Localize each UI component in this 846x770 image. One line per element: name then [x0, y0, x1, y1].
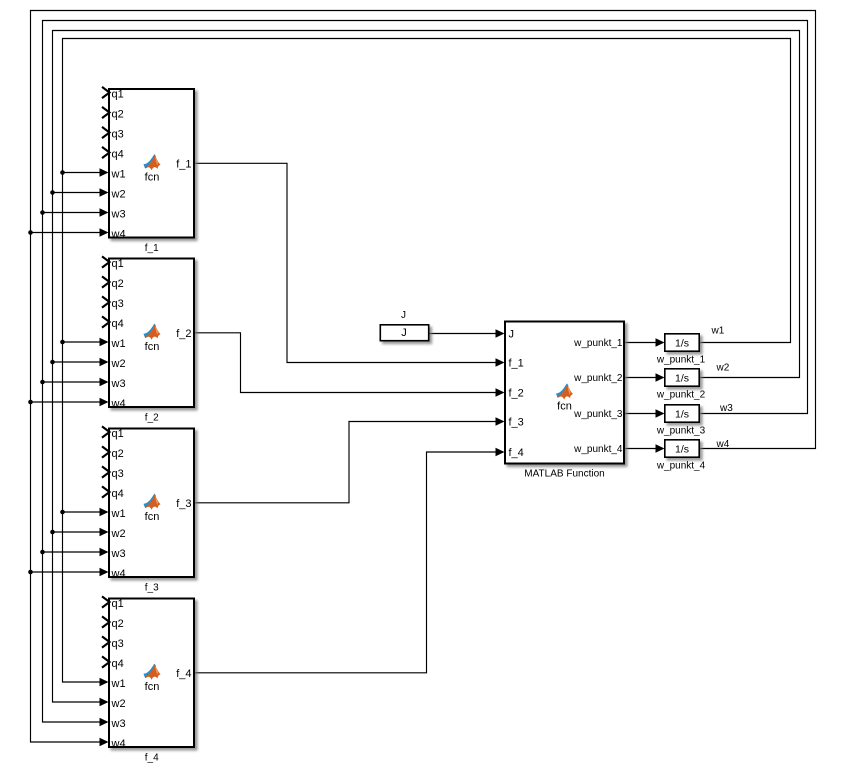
- svg-text:1/s: 1/s: [675, 337, 689, 349]
- svg-text:q1: q1: [112, 258, 124, 270]
- svg-text:q3: q3: [112, 638, 124, 650]
- svg-text:f_2: f_2: [509, 387, 524, 399]
- svg-text:w3: w3: [111, 548, 126, 560]
- svg-text:q2: q2: [112, 448, 124, 460]
- svg-text:w3: w3: [719, 403, 733, 414]
- svg-text:w3: w3: [111, 208, 126, 220]
- svg-text:w1: w1: [711, 326, 725, 337]
- svg-text:1/s: 1/s: [675, 443, 689, 455]
- svg-text:w2: w2: [111, 188, 126, 200]
- svg-text:q3: q3: [112, 468, 124, 480]
- svg-text:w4: w4: [111, 398, 126, 410]
- svg-text:q3: q3: [112, 128, 124, 140]
- svg-text:q1: q1: [112, 598, 124, 610]
- svg-text:w_punkt_1: w_punkt_1: [573, 338, 623, 349]
- svg-text:q4: q4: [112, 658, 124, 670]
- svg-text:f_4: f_4: [145, 753, 159, 764]
- svg-text:f_4: f_4: [509, 447, 524, 459]
- svg-text:w_punkt_3: w_punkt_3: [656, 426, 706, 437]
- svg-text:q1: q1: [112, 428, 124, 440]
- svg-text:f_3: f_3: [176, 498, 191, 510]
- svg-text:f_3: f_3: [509, 416, 524, 428]
- svg-text:f_2: f_2: [176, 328, 191, 340]
- svg-text:f_1: f_1: [145, 243, 159, 254]
- svg-text:w3: w3: [111, 378, 126, 390]
- svg-text:J: J: [401, 327, 407, 339]
- svg-text:w_punkt_4: w_punkt_4: [573, 444, 623, 455]
- svg-text:w_punkt_4: w_punkt_4: [656, 461, 706, 472]
- svg-text:q4: q4: [112, 488, 124, 500]
- svg-text:f_1: f_1: [176, 158, 191, 170]
- svg-text:w_punkt_1: w_punkt_1: [656, 355, 706, 366]
- svg-text:w1: w1: [111, 508, 126, 520]
- svg-text:1/s: 1/s: [675, 372, 689, 384]
- svg-text:q4: q4: [112, 318, 124, 330]
- svg-text:fcn: fcn: [145, 171, 160, 183]
- svg-text:fcn: fcn: [145, 511, 160, 523]
- svg-text:MATLAB Function: MATLAB Function: [524, 469, 604, 480]
- svg-text:w2: w2: [716, 363, 730, 374]
- svg-text:w4: w4: [111, 228, 126, 240]
- svg-text:J: J: [401, 310, 406, 321]
- svg-text:fcn: fcn: [145, 681, 160, 693]
- svg-text:w4: w4: [716, 439, 730, 450]
- svg-text:w4: w4: [111, 738, 126, 750]
- svg-text:q2: q2: [112, 618, 124, 630]
- svg-text:fcn: fcn: [557, 401, 572, 413]
- svg-text:w2: w2: [111, 698, 126, 710]
- svg-text:1/s: 1/s: [675, 408, 689, 420]
- svg-text:w4: w4: [111, 568, 126, 580]
- svg-text:w2: w2: [111, 528, 126, 540]
- svg-text:f_4: f_4: [176, 668, 191, 680]
- svg-text:w_punkt_3: w_punkt_3: [573, 409, 623, 420]
- svg-text:q2: q2: [112, 278, 124, 290]
- svg-text:q3: q3: [112, 298, 124, 310]
- svg-text:f_2: f_2: [145, 413, 159, 424]
- svg-text:w1: w1: [111, 338, 126, 350]
- svg-text:q2: q2: [112, 108, 124, 120]
- svg-text:w2: w2: [111, 358, 126, 370]
- svg-text:J: J: [509, 328, 515, 340]
- svg-text:w3: w3: [111, 718, 126, 730]
- svg-text:w_punkt_2: w_punkt_2: [656, 390, 706, 401]
- svg-text:w_punkt_2: w_punkt_2: [573, 373, 623, 384]
- svg-text:q1: q1: [112, 88, 124, 100]
- svg-text:w1: w1: [111, 678, 126, 690]
- svg-text:f_1: f_1: [509, 357, 524, 369]
- svg-text:fcn: fcn: [145, 341, 160, 353]
- svg-text:f_3: f_3: [145, 583, 159, 594]
- svg-text:q4: q4: [112, 148, 124, 160]
- svg-text:w1: w1: [111, 168, 126, 180]
